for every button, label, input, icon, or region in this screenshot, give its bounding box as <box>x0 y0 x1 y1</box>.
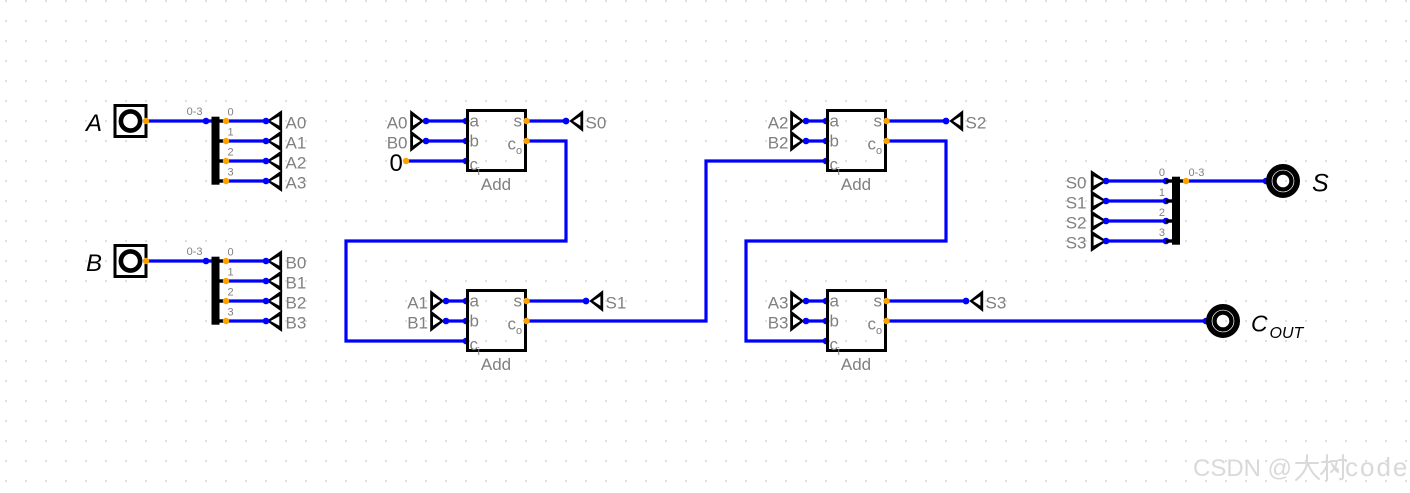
svg-text:S2: S2 <box>966 114 987 133</box>
svg-text:a: a <box>470 112 480 131</box>
wire splitter A bit 2 <box>226 159 266 162</box>
wire input A to splitter <box>147 119 212 122</box>
wire adder U3 s to tunnel S2 <box>887 119 947 122</box>
svg-text:i: i <box>478 346 480 358</box>
wire splitter B bit 2 <box>226 299 266 302</box>
wire input B to splitter <box>147 259 212 262</box>
adder U2 pin a <box>463 298 470 305</box>
svg-text:B0: B0 <box>286 254 307 273</box>
wire A3 to adder U4 a <box>806 299 826 302</box>
svg-text:0-3: 0-3 <box>187 246 203 258</box>
wire adder U4 s to tunnel S3 <box>887 299 967 302</box>
svg-text:A1: A1 <box>407 294 428 313</box>
svg-text:B2: B2 <box>768 134 789 153</box>
tunnel S3 <box>963 290 1007 313</box>
constant 0 pin <box>403 158 409 164</box>
svg-text:i: i <box>478 166 480 178</box>
input A pin <box>143 118 149 124</box>
tunnel A2 <box>768 110 810 133</box>
svg-text:i: i <box>838 346 840 358</box>
wire end dot S3 <box>963 298 970 305</box>
wire splitter A bit 3 <box>226 179 266 182</box>
svg-text:code: code <box>1345 452 1409 482</box>
svg-text:0: 0 <box>228 247 234 259</box>
splitter A pin 1 <box>223 138 229 144</box>
adder U3 pin s <box>883 118 889 124</box>
svg-text:o: o <box>516 325 522 337</box>
wire merger to output S <box>1186 179 1266 182</box>
adder U1 pin a <box>463 118 470 125</box>
wire S2 to merger <box>1106 219 1166 222</box>
svg-text:a: a <box>470 292 480 311</box>
wire adder U4 co to output COUT <box>887 319 1207 322</box>
svg-text:o: o <box>876 325 882 337</box>
wire carry U3 co to U4 ci <box>746 141 946 341</box>
wire splitter B bit 0 <box>226 259 266 262</box>
svg-text:0-3: 0-3 <box>187 106 203 118</box>
wire end dot S0 <box>563 118 570 125</box>
adder U3 pin b <box>823 138 830 145</box>
svg-text:3: 3 <box>1159 227 1165 239</box>
adder U3 pin a <box>823 118 830 125</box>
svg-text:2: 2 <box>1159 207 1165 219</box>
tunnel S1 <box>1066 190 1110 213</box>
wire S1 to merger <box>1106 199 1166 202</box>
svg-text:0-3: 0-3 <box>1189 167 1205 179</box>
svg-text:S3: S3 <box>986 294 1007 313</box>
svg-text:B1: B1 <box>407 314 428 333</box>
svg-text:s: s <box>514 112 523 131</box>
watermark CSDN <box>1193 452 1409 482</box>
svg-text:b: b <box>830 312 839 331</box>
svg-text:A0: A0 <box>286 114 307 133</box>
splitter A (1 to 4) <box>187 106 226 185</box>
wire A1 to adder U2 a <box>446 299 466 302</box>
svg-text:A3: A3 <box>286 174 307 193</box>
svg-text:S3: S3 <box>1066 234 1087 253</box>
svg-text:s: s <box>874 292 883 311</box>
merger pin 1 <box>1163 198 1170 205</box>
adder U2 pin co <box>523 318 529 324</box>
tunnel A3 <box>263 170 307 193</box>
svg-text:S2: S2 <box>1066 214 1087 233</box>
svg-text:Add: Add <box>841 175 871 194</box>
tunnel S3 <box>1066 230 1110 253</box>
wire splitter A bit 1 <box>226 139 266 142</box>
svg-text:b: b <box>470 312 479 331</box>
svg-text:CSDN @: CSDN @ <box>1193 455 1292 482</box>
adder U4 pin b <box>823 318 830 325</box>
adder U1 pin ci <box>463 158 470 165</box>
adder U3 (Add) <box>828 111 886 195</box>
splitter B pin 3 <box>223 318 229 324</box>
merger splitter (4 to 1) <box>1159 167 1205 245</box>
svg-text:A3: A3 <box>768 294 789 313</box>
adder U1 (Add) <box>468 111 526 195</box>
tunnel B2 <box>768 130 810 153</box>
wire A0 to adder U1 a <box>426 119 466 122</box>
svg-text:0: 0 <box>390 150 403 177</box>
svg-text:A: A <box>84 110 102 137</box>
svg-text:b: b <box>470 132 479 151</box>
splitter B pin 0 <box>223 258 229 264</box>
tunnel B0 <box>263 250 307 273</box>
wire adder U2 s to tunnel S1 <box>527 299 587 302</box>
input A <box>84 106 146 137</box>
tunnel B1 <box>407 310 449 333</box>
splitter B pin 1 <box>223 278 229 284</box>
adder U2 pin ci <box>463 338 470 345</box>
tunnel B3 <box>263 310 307 333</box>
svg-text:Add: Add <box>841 355 871 374</box>
wire B2 to adder U3 b <box>806 139 826 142</box>
svg-text:o: o <box>516 145 522 157</box>
wire end dot at splitter A input <box>203 118 210 125</box>
svg-text:i: i <box>838 166 840 178</box>
output S <box>1269 167 1329 197</box>
tunnel S0 <box>1066 170 1110 193</box>
svg-text:B2: B2 <box>286 294 307 313</box>
wire B3 to adder U4 b <box>806 319 826 322</box>
tunnel S0 <box>563 110 607 133</box>
svg-text:1: 1 <box>228 127 234 139</box>
svg-text:3: 3 <box>228 307 234 319</box>
splitter B pin 2 <box>223 298 229 304</box>
tunnel S2 <box>1066 210 1110 233</box>
wire splitter B bit 3 <box>226 319 266 322</box>
svg-text:3: 3 <box>228 167 234 179</box>
svg-text:S0: S0 <box>1066 174 1087 193</box>
adder U1 pin b <box>463 138 470 145</box>
adder U4 pin co <box>883 318 889 324</box>
input B <box>86 246 146 277</box>
output S pin <box>1263 178 1270 185</box>
svg-text:a: a <box>830 292 840 311</box>
svg-text:1: 1 <box>228 267 234 279</box>
svg-text:S1: S1 <box>606 294 627 313</box>
svg-text:B3: B3 <box>768 314 789 333</box>
merger pin 3 <box>1163 238 1170 245</box>
tunnel S2 <box>943 110 987 133</box>
tunnel A0 <box>263 110 307 133</box>
svg-text:S1: S1 <box>1066 194 1087 213</box>
tunnel A1 <box>263 130 307 153</box>
wire A2 to adder U3 a <box>806 119 826 122</box>
svg-text:A1: A1 <box>286 134 307 153</box>
wire adder U1 s to tunnel S0 <box>527 119 567 122</box>
splitter A pin 0 <box>223 118 229 124</box>
wire splitter B bit 1 <box>226 279 266 282</box>
svg-text:Add: Add <box>481 355 511 374</box>
svg-text:B3: B3 <box>286 314 307 333</box>
merger pin 2 <box>1163 218 1170 225</box>
tunnel B1 <box>263 270 307 293</box>
svg-text:A0: A0 <box>387 114 408 133</box>
svg-text:S0: S0 <box>586 114 607 133</box>
adder U3 pin ci <box>823 158 830 165</box>
adder U1 pin co <box>523 138 529 144</box>
svg-text:A2: A2 <box>768 114 789 133</box>
svg-text:C: C <box>1251 311 1268 337</box>
splitter B (1 to 4) <box>187 246 226 325</box>
wire carry U1 co to U2 ci <box>346 141 566 341</box>
adder U4 pin ci <box>823 338 830 345</box>
svg-text:1: 1 <box>1159 187 1165 199</box>
merger pin 0 <box>1163 178 1170 185</box>
svg-text:b: b <box>830 132 839 151</box>
splitter A pin 2 <box>223 158 229 164</box>
wire B1 to adder U2 b <box>446 319 466 322</box>
svg-text:B: B <box>86 250 102 277</box>
svg-text:o: o <box>876 145 882 157</box>
wire splitter A bit 0 <box>226 119 266 122</box>
wire S0 to merger <box>1106 179 1166 182</box>
svg-text:Add: Add <box>481 175 511 194</box>
svg-text:s: s <box>874 112 883 131</box>
tunnel A3 <box>768 290 810 313</box>
svg-text:OUT: OUT <box>1270 325 1305 342</box>
splitter A pin 3 <box>223 178 229 184</box>
input B pin <box>143 258 149 264</box>
output COUT <box>1209 307 1305 342</box>
adder U2 pin b <box>463 318 470 325</box>
output COUT pin <box>1203 318 1210 325</box>
wire end dot at splitter B input <box>203 258 210 265</box>
tunnel B2 <box>263 290 307 313</box>
adder U4 pin s <box>883 298 889 304</box>
merger output pin <box>1183 178 1189 184</box>
adder U2 pin s <box>523 298 529 304</box>
adder U3 pin co <box>883 138 889 144</box>
svg-text:0: 0 <box>1159 167 1165 179</box>
svg-text:B1: B1 <box>286 274 307 293</box>
svg-text:a: a <box>830 112 840 131</box>
tunnel B3 <box>768 310 810 333</box>
adder U4 pin a <box>823 298 830 305</box>
svg-text:s: s <box>514 292 523 311</box>
wire end dot S2 <box>943 118 950 125</box>
wire B0 to adder U1 b <box>426 139 466 142</box>
svg-text:S: S <box>1312 169 1329 197</box>
adder U4 (Add) <box>828 291 886 375</box>
wire constant 0 to adder U1 ci <box>406 159 466 162</box>
svg-text:0: 0 <box>228 107 234 119</box>
svg-text:A2: A2 <box>286 154 307 173</box>
wire carry U2 co to U3 ci <box>527 161 827 321</box>
adder U2 (Add) <box>468 291 526 375</box>
wire S3 to merger <box>1106 239 1166 242</box>
tunnel A1 <box>407 290 449 313</box>
tunnel A2 <box>263 150 307 173</box>
wire end dot S1 <box>583 298 590 305</box>
tunnel B0 <box>387 130 430 153</box>
adder U1 pin s <box>523 118 529 124</box>
svg-text:2: 2 <box>228 287 234 299</box>
tunnel A0 <box>387 110 430 133</box>
svg-text:2: 2 <box>228 147 234 159</box>
tunnel S1 <box>583 290 627 313</box>
